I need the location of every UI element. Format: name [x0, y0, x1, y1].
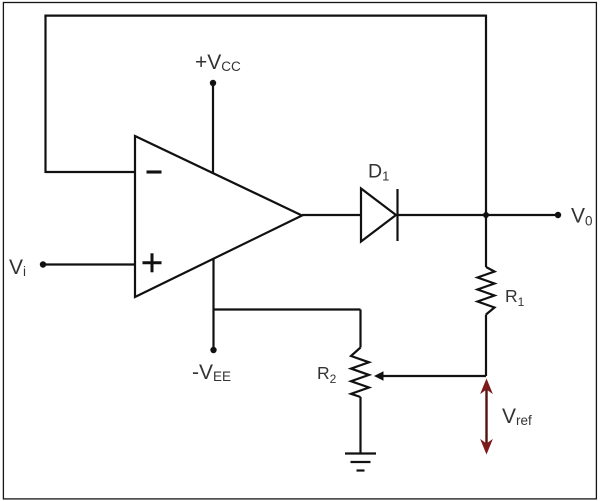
- wire output node down to R1: [485, 215, 487, 267]
- node V0 terminal dot: [555, 212, 561, 218]
- wire output node to V0 terminal: [486, 214, 558, 216]
- wire R2 bottom to ground: [359, 397, 361, 454]
- wire R1 bottom to Vref node: [485, 315, 487, 377]
- node +VCC terminal dot: [210, 80, 216, 86]
- wire diode cathode to output node: [398, 214, 487, 216]
- node -VEE terminal dot: [210, 347, 216, 353]
- op-amp U1: [135, 136, 302, 297]
- Vref arrow (red double-headed): [481, 380, 492, 454]
- diode D1: [361, 189, 398, 242]
- wire feedback top horizontal: [44, 15, 486, 17]
- wire +VCC to op-amp top edge: [212, 83, 214, 174]
- op-amp non-inverting input plus symbol: [143, 253, 162, 272]
- wire op-amp output to diode anode: [302, 214, 361, 216]
- node Vi terminal dot: [40, 261, 46, 267]
- wire feedback left vertical: [44, 16, 46, 173]
- potentiometer R2: [351, 348, 369, 398]
- ground: [345, 454, 376, 471]
- wire branch to R2 top horizontal: [214, 308, 361, 310]
- wire feedback right vertical down to output node: [485, 15, 487, 215]
- wire down to R2: [359, 310, 361, 348]
- wire feedback left horizontal to inverting input: [46, 171, 136, 173]
- wire R2 wiper arm with arrowhead: [374, 371, 486, 381]
- op-amp inverting input minus symbol: [147, 170, 162, 173]
- node output junction dot: [483, 212, 489, 218]
- wire op-amp bottom to -VEE node: [212, 258, 214, 350]
- resistor R1: [478, 267, 495, 315]
- wire Vi to non-inverting input: [43, 263, 135, 265]
